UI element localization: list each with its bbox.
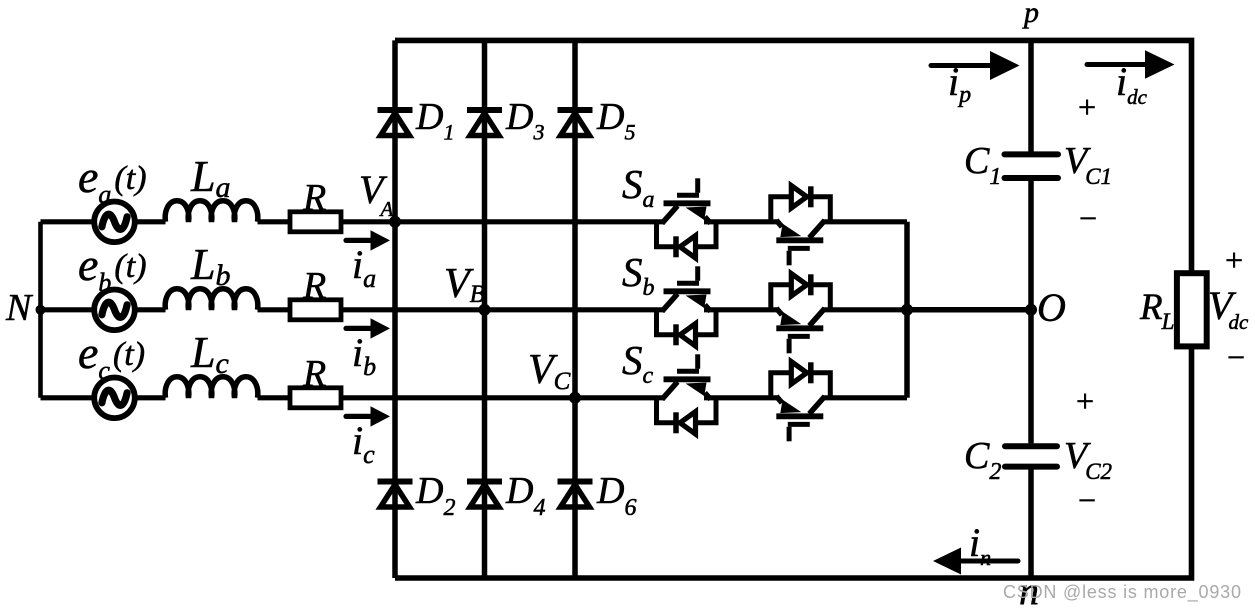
svg-text:C1: C1 xyxy=(964,140,1001,190)
wire negative dc bus n xyxy=(395,346,1192,578)
resistor RL (load) xyxy=(1177,273,1207,346)
wire inductor L_c to switch S_c through node V xyxy=(258,395,666,400)
diode D6 xyxy=(558,482,593,510)
svg-text:C2: C2 xyxy=(964,435,1001,485)
transistor S_a right IGBT with antiparallel diode xyxy=(771,186,831,266)
capacitor C2 xyxy=(1005,443,1057,449)
svg-text:D5: D5 xyxy=(596,96,635,145)
svg-text:R: R xyxy=(302,265,326,307)
wire p bus to capacitor C1 xyxy=(1028,40,1034,151)
wire node N bus to source e_c(t) xyxy=(41,395,166,400)
wire node N bus to source e_a(t) xyxy=(41,219,166,224)
resistor R (phase a) xyxy=(290,212,341,232)
svg-text:O: O xyxy=(1037,285,1066,330)
svg-text:D3: D3 xyxy=(505,96,544,145)
current arrow i_p xyxy=(931,63,998,68)
current arrow i_n xyxy=(948,559,1018,564)
inductor L_b xyxy=(165,289,258,310)
svg-text:in: in xyxy=(969,520,991,570)
svg-text:D4: D4 xyxy=(505,470,545,521)
svg-text:La: La xyxy=(190,152,230,204)
node V_A junction dot xyxy=(389,216,401,228)
svg-text:+: + xyxy=(1076,89,1098,125)
midpoint bus junction dot xyxy=(901,304,913,316)
current arrow i_b xyxy=(346,326,374,331)
wire capacitor C1 to node O to capacitor C2 xyxy=(1028,181,1034,444)
diode D2 xyxy=(378,482,413,510)
wire switch midpoint bus xyxy=(904,222,910,398)
wire node N bus to source e_b(t) xyxy=(41,307,166,312)
svg-text:Vdc: Vdc xyxy=(1208,283,1249,334)
resistor R (phase c) xyxy=(290,388,341,408)
node N junction dot xyxy=(36,305,46,315)
resistor R (phase b) xyxy=(290,300,341,320)
wire bridge leg phase c (D5/D6) xyxy=(572,40,578,578)
svg-text:Sa: Sa xyxy=(622,161,655,213)
diode D5 xyxy=(558,110,593,138)
transistor S_c right IGBT with antiparallel diode xyxy=(771,362,831,442)
svg-text:−: − xyxy=(1077,200,1099,236)
svg-text:N: N xyxy=(5,287,34,329)
svg-text:Lc: Lc xyxy=(190,328,229,380)
current arrow i_dc xyxy=(1087,62,1150,67)
AC source e_b(t) xyxy=(94,290,135,331)
diode D3 xyxy=(467,110,502,138)
node V_B junction dot xyxy=(479,304,491,316)
svg-text:ia: ia xyxy=(352,242,376,293)
transistor S_b left IGBT with antiparallel diode xyxy=(657,266,717,346)
wire S_c to midpoint bus xyxy=(822,395,907,400)
svg-text:Sb: Sb xyxy=(622,249,655,301)
current arrow i_c xyxy=(346,414,374,419)
wire neutral bus at node N xyxy=(38,222,43,398)
svg-text:CSDN @less is more_0930: CSDN @less is more_0930 xyxy=(1003,582,1242,603)
svg-text:Lb: Lb xyxy=(190,240,230,292)
svg-text:D2: D2 xyxy=(415,470,455,521)
AC source e_a(t) xyxy=(94,202,135,243)
wire S_a to midpoint bus xyxy=(822,219,907,224)
transistor S_b right IGBT with antiparallel diode xyxy=(771,274,831,354)
wire bridge leg phase a (D1/D2) xyxy=(392,40,398,578)
svg-text:ib: ib xyxy=(352,330,376,381)
svg-text:VC1: VC1 xyxy=(1064,140,1112,189)
wire capacitor C2 to n bus xyxy=(1028,469,1034,578)
node V_C junction dot xyxy=(569,392,581,404)
node O junction dot xyxy=(1025,304,1037,316)
wire between S_c IGBTs xyxy=(704,395,778,400)
wire inductor L_a to switch S_a through node V xyxy=(258,219,666,224)
diode D1 xyxy=(378,110,413,138)
svg-text:p: p xyxy=(1022,0,1039,29)
svg-text:RL: RL xyxy=(1139,287,1174,334)
AC source e_c(t) xyxy=(94,378,135,419)
transistor S_a left IGBT with antiparallel diode xyxy=(657,178,717,258)
wire S_b to midpoint bus xyxy=(822,307,907,312)
svg-text:+: + xyxy=(1223,242,1245,278)
svg-text:−: − xyxy=(1076,482,1098,518)
svg-text:D1: D1 xyxy=(415,96,454,145)
inductor L_c xyxy=(165,377,258,398)
transistor S_c left IGBT with antiparallel diode xyxy=(657,354,717,434)
current arrow i_a xyxy=(346,238,374,243)
wire midpoint bus to node O xyxy=(907,307,1031,313)
inductor L_a xyxy=(165,201,258,222)
svg-text:D6: D6 xyxy=(596,470,636,521)
wire between S_b IGBTs xyxy=(704,307,778,312)
svg-text:VB: VB xyxy=(444,261,485,308)
wire positive dc bus p xyxy=(395,40,1192,273)
capacitor C1 xyxy=(1005,151,1059,157)
diode D4 xyxy=(467,482,502,510)
svg-text:R: R xyxy=(302,177,326,219)
wire inductor L_b to switch S_b through node V xyxy=(258,307,666,312)
svg-text:−: − xyxy=(1225,339,1247,375)
svg-text:VC2: VC2 xyxy=(1064,435,1112,484)
svg-text:VA: VA xyxy=(359,167,393,221)
svg-text:R: R xyxy=(302,353,326,395)
svg-text:VC: VC xyxy=(528,347,571,395)
svg-text:+: + xyxy=(1074,383,1096,419)
wire between S_a IGBTs xyxy=(704,219,778,224)
wire bridge leg phase b (D3/D4) xyxy=(482,40,488,578)
svg-text:Sc: Sc xyxy=(622,337,654,389)
